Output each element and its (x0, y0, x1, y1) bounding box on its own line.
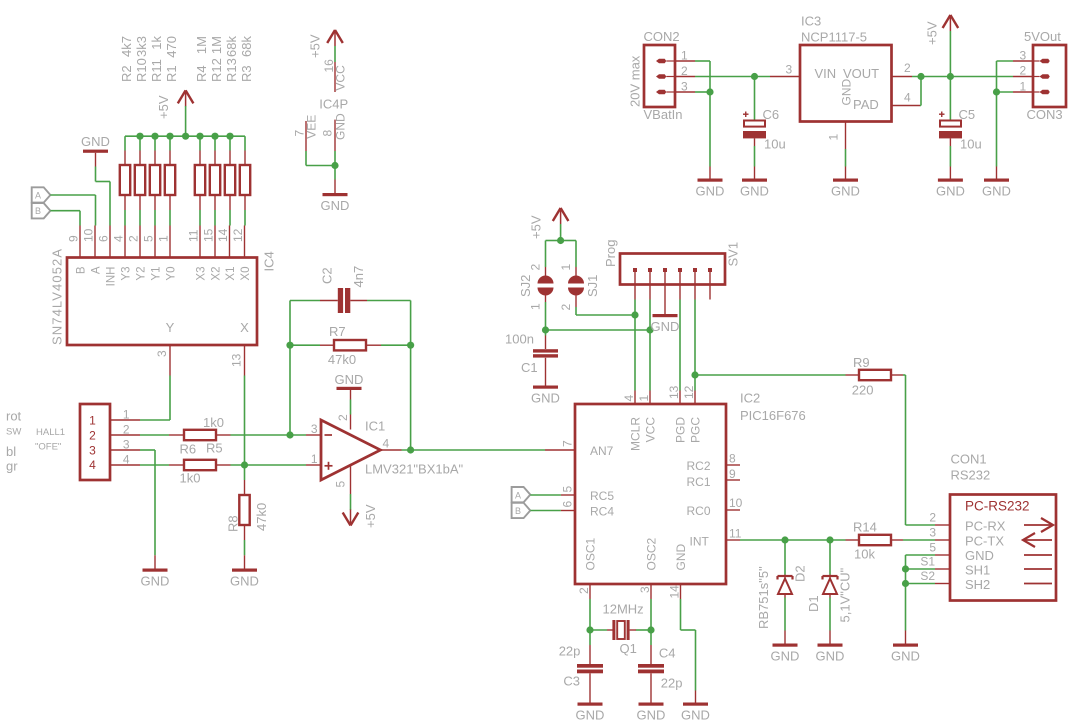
ground GND (C6) (740, 167, 769, 199)
diode D2 RB751s"5" (756, 540, 808, 629)
wire CON2 pin1/pin3 to GND (695, 61, 710, 167)
pin 15 X2 of IC4 (202, 226, 223, 281)
svg-text:VIN: VIN (815, 66, 837, 81)
svg-text:2: 2 (123, 422, 130, 436)
svg-text:2: 2 (559, 304, 573, 311)
svg-text:R14: R14 (853, 520, 877, 535)
svg-text:X1: X1 (225, 267, 237, 281)
capacitor C2 4n7 (320, 266, 368, 313)
label 100n (505, 332, 534, 347)
pin 14 X1 of IC4 (216, 226, 237, 281)
svg-text:5VOut: 5VOut (1024, 29, 1061, 44)
junction VOUT/PAD (917, 73, 924, 80)
pin S2 SH2 of CON1 (920, 569, 990, 592)
pin 1 of CON2 (675, 49, 695, 63)
svg-text:68k: 68k (239, 36, 254, 57)
ground GND (C4) (637, 703, 666, 723)
node A (near IC2) (512, 487, 531, 502)
svg-text:GND: GND (840, 79, 854, 106)
pin 3 of HALL1 (110, 437, 140, 451)
svg-text:X3: X3 (196, 267, 208, 281)
svg-text:IC2: IC2 (740, 391, 760, 406)
svg-text:GND: GND (576, 708, 605, 723)
svg-text:SJ2: SJ2 (518, 275, 533, 297)
svg-text:B: B (515, 506, 521, 516)
wire SV1 pin5 to IC2 PGC and R9 (695, 300, 846, 391)
ground GND (CON1) (891, 631, 920, 664)
svg-text:3: 3 (89, 443, 96, 457)
wire R9 to CON1 PC-RX (903, 375, 935, 525)
junction dots on +5V bus (136, 133, 233, 140)
solder jumper SJ2 (518, 264, 554, 311)
solder jumper SJ1 (559, 264, 600, 311)
svg-text:RC4: RC4 (590, 505, 614, 519)
wire HALL1 pin2 to R5 (140, 434, 169, 436)
svg-text:PC-TX: PC-TX (965, 534, 1004, 549)
svg-text:2: 2 (577, 587, 591, 594)
svg-text:INT: INT (690, 535, 710, 549)
svg-text:GND: GND (637, 708, 666, 723)
capacitor C3 22p (559, 630, 603, 703)
junction output feedback (407, 446, 414, 453)
pin 1 of HALL1 (110, 407, 140, 421)
op IC3 NCP1117-5 box (800, 45, 892, 122)
svg-text:X: X (240, 320, 249, 335)
svg-text:470: 470 (164, 36, 179, 58)
node A (top-left arrow) (32, 187, 51, 202)
svg-text:1M: 1M (209, 36, 224, 54)
svg-text:RC2: RC2 (686, 459, 710, 473)
svg-text:Y3: Y3 (121, 267, 133, 281)
svg-text:C5: C5 (959, 107, 976, 122)
pin 1 of IC3 (bottom) (827, 122, 846, 150)
svg-text:1: 1 (123, 407, 130, 421)
svg-text:4: 4 (89, 458, 96, 472)
svg-text:22p: 22p (559, 644, 581, 659)
pin 3 of CON3 (1013, 49, 1033, 63)
svg-text:2: 2 (904, 61, 911, 75)
svg-text:R7: R7 (329, 324, 346, 339)
pin 1 of SV1 (633, 268, 637, 300)
junction C6 node (751, 73, 758, 80)
svg-text:VCC: VCC (334, 65, 348, 91)
svg-text:B: B (35, 206, 41, 216)
pin 8 GND of IC4P (321, 113, 348, 151)
ground GND (IC1 pin 2) (335, 372, 364, 399)
label NCP1117-5 (801, 30, 867, 45)
svg-text:GND: GND (335, 372, 364, 387)
svg-text:15: 15 (202, 228, 216, 242)
pin 5 Y1 of IC4 (142, 226, 163, 281)
wire crystal left (590, 629, 607, 631)
svg-text:PC-RS232: PC-RS232 (965, 499, 1030, 514)
svg-text:5,1V"CU": 5,1V"CU" (838, 567, 853, 622)
label R6 (180, 442, 197, 457)
label LMV321"BX1bA" (365, 462, 464, 477)
svg-text:GND: GND (81, 134, 110, 149)
pin 10 A of IC4 (82, 226, 103, 275)
resistor R6 1k0 (169, 460, 231, 486)
junction SH2 (902, 580, 909, 587)
svg-text:+5V: +5V (925, 21, 940, 45)
wire GND to IC1 pin2 (350, 400, 352, 415)
connector HALL1 box (80, 404, 110, 480)
arrow PC-RX (right) (1024, 518, 1053, 532)
label IC1 (365, 419, 385, 434)
svg-text:X0: X0 (240, 267, 252, 281)
label IC3 (801, 14, 821, 29)
svg-text:7: 7 (561, 440, 575, 447)
svg-text:IC1: IC1 (365, 419, 385, 434)
pin 9 RC1 of IC2 (686, 467, 740, 489)
svg-text:Prog: Prog (603, 240, 618, 267)
junction feedback to pin3 (286, 431, 293, 438)
pin 3 Y of IC4 (bottom) (155, 320, 175, 376)
svg-text:VCC: VCC (644, 417, 658, 443)
pin 8 RC2 of IC2 (686, 452, 740, 474)
wire feedback left vertical (290, 301, 320, 436)
resistor R5 1k0 (169, 415, 231, 456)
label PC-RS232 (965, 499, 1030, 514)
svg-text:MCLR: MCLR (629, 417, 643, 451)
junction VCC node (646, 326, 653, 333)
wire +5V to CON3 pin2 (950, 76, 1013, 78)
label CON2 (644, 29, 680, 44)
svg-text:rot: rot (6, 409, 22, 424)
pin S1 SH1 of CON1 (920, 555, 990, 578)
svg-text:B: B (76, 266, 88, 274)
svg-text:VEE: VEE (305, 115, 319, 139)
svg-text:GND: GND (696, 184, 725, 199)
junction R7 left (286, 342, 293, 349)
svg-text:SV1: SV1 (726, 242, 741, 267)
pin 6 INH of IC4 (97, 226, 118, 287)
svg-text:12: 12 (682, 385, 696, 399)
svg-text:6: 6 (561, 501, 575, 508)
op IC4 SN74LV4052A multiplexer box (67, 258, 257, 346)
label SW (6, 426, 21, 437)
svg-text:68k: 68k (224, 36, 239, 57)
svg-text:2: 2 (529, 264, 543, 271)
wire R5 to IC1 pin3 (231, 434, 307, 436)
pin 13 PGD of IC2 (667, 385, 688, 443)
svg-text:+5V: +5V (156, 95, 171, 119)
svg-text:2: 2 (127, 235, 141, 242)
pin 5 GND of CON1 (929, 541, 994, 564)
wire IC1 output to IC2 AN7 (402, 449, 546, 451)
svg-text:IC3: IC3 (801, 14, 821, 29)
svg-text:11: 11 (729, 527, 742, 541)
pin 7 VEE of IC4P (293, 115, 319, 151)
node B (top-left arrow) (32, 203, 51, 218)
svg-text:CON1: CON1 (951, 452, 987, 467)
svg-text:+5V: +5V (529, 215, 544, 239)
svg-text:R10: R10 (134, 58, 149, 82)
svg-text:1: 1 (157, 235, 171, 242)
wire D1 to GND (829, 598, 831, 631)
svg-text:bl: bl (6, 444, 16, 459)
svg-text:SH1: SH1 (965, 563, 990, 578)
wire VEE to GND (IC4P) (306, 151, 335, 180)
wire CON3 pin3/pin1 to GND (997, 61, 1014, 167)
pin 4 of IC1 (output) (381, 437, 402, 451)
svg-text:11: 11 (187, 229, 201, 242)
wire SV1 pin4 to IC2 PGD (679, 300, 681, 391)
svg-text:Q1: Q1 (620, 641, 637, 656)
svg-text:1: 1 (1020, 80, 1027, 94)
svg-text:1k0: 1k0 (180, 471, 201, 486)
label Prog (603, 240, 618, 267)
svg-text:C4: C4 (659, 646, 676, 661)
label gr (6, 458, 18, 473)
resistor R2 (4k7) (119, 36, 134, 226)
wire CON1 GND/SH1/SH2 to ground (906, 555, 936, 631)
line GND stub (CON1) (1024, 554, 1052, 556)
wire OSC1 down (589, 599, 591, 630)
svg-text:C6: C6 (763, 107, 780, 122)
ground GND (IC2 pin14) (681, 691, 710, 723)
ground GND (IC4P) (321, 180, 350, 214)
svg-text:14: 14 (216, 228, 230, 242)
svg-text:5: 5 (142, 235, 156, 242)
svg-text:OSC2: OSC2 (645, 537, 659, 570)
junction SJ1/SV1 node (631, 311, 638, 318)
svg-text:8: 8 (321, 130, 335, 137)
svg-text:C1: C1 (521, 360, 538, 375)
wire B to RC4 (530, 510, 561, 512)
svg-text:IC4P: IC4P (319, 97, 348, 112)
pin 12 PGC of IC2 (682, 385, 703, 443)
label 5VOut (1024, 29, 1061, 44)
wire INT to R14 (740, 539, 846, 541)
svg-text:GND: GND (674, 544, 688, 571)
svg-text:14: 14 (668, 585, 682, 599)
svg-text:RS232: RS232 (951, 468, 991, 483)
wire GND to IC4 pin 6 INH (96, 167, 111, 226)
connector SV1 Prog box (620, 254, 725, 285)
pin 3 of CON2 (675, 80, 695, 94)
connector CON1 RS232 box (950, 495, 1056, 601)
svg-text:Y: Y (166, 320, 175, 335)
svg-text:GND: GND (816, 649, 845, 664)
svg-text:3: 3 (155, 350, 169, 357)
svg-text:VBatIn: VBatIn (644, 107, 683, 122)
svg-text:R13: R13 (224, 58, 239, 82)
junction SH1 (902, 565, 909, 572)
op IC2 PIC16F676 box (575, 404, 726, 584)
pin 16 VCC of IC4P (322, 59, 348, 92)
pin 2 Y2 of IC4 (127, 226, 148, 281)
pin 4 of SV1 (678, 268, 682, 300)
svg-text:20V max: 20V max (628, 55, 643, 107)
power +5V symbol (top right) (925, 15, 959, 77)
crystal Q1 12MHz (603, 602, 644, 657)
resistor R4 (1M) (194, 36, 209, 226)
wire HALL1 pin4 to R6 (140, 464, 169, 466)
svg-text:IC4: IC4 (262, 251, 277, 271)
ground GND (SV1 pin3) (651, 300, 680, 335)
wire R6 to IC1 pin1 (231, 464, 307, 466)
svg-text:GND: GND (321, 198, 350, 213)
junction D2 node (781, 536, 788, 543)
svg-text:4: 4 (112, 235, 126, 242)
svg-text:4: 4 (123, 452, 130, 466)
svg-text:9: 9 (729, 467, 736, 481)
svg-text:2: 2 (1020, 64, 1027, 78)
svg-text:1M: 1M (194, 36, 209, 54)
junction OSC2 crystal node (647, 626, 654, 633)
label PIC16F676 (740, 408, 806, 423)
wire SJ2 to C1 node (545, 302, 547, 330)
pin 14 GND of IC2 (668, 544, 689, 600)
svg-text:PIC16F676: PIC16F676 (740, 408, 806, 423)
svg-text:Y1: Y1 (151, 267, 163, 281)
svg-text:SN74LV4052A: SN74LV4052A (50, 248, 65, 345)
resistor R7 47k0 (320, 324, 381, 367)
svg-text:8: 8 (729, 452, 736, 466)
svg-text:2: 2 (89, 428, 96, 442)
junction R7 right (407, 342, 414, 349)
resistor R11 (1k) (149, 36, 164, 226)
label "OFE" (35, 442, 61, 453)
pin 2 VOUT of IC3 (892, 61, 913, 77)
svg-text:S1: S1 (920, 555, 935, 569)
pin 10 RC0 of IC2 (686, 496, 742, 518)
wire IC1 pin5 to +5V (350, 494, 352, 510)
wire IC2 GND to ground (681, 599, 696, 691)
svg-text:1: 1 (89, 414, 96, 428)
svg-text:1k0: 1k0 (203, 415, 224, 430)
pin 4 MCLR of IC2 (622, 391, 643, 452)
ground GND (IC4 INH) (81, 134, 110, 166)
wire IC3 pin1 to GND (845, 149, 847, 167)
svg-text:Y0: Y0 (166, 267, 178, 281)
resistor R12 (1M) (209, 36, 224, 226)
wire crystal right (636, 629, 651, 631)
svg-text:R8: R8 (226, 515, 241, 532)
label rot (6, 409, 22, 424)
svg-text:CON3: CON3 (1027, 107, 1063, 122)
label IC2 (740, 391, 760, 406)
svg-text:C2: C2 (320, 267, 335, 284)
resistor R8 47k0 (226, 480, 270, 540)
ground GND (CON2) (696, 167, 725, 199)
svg-text:47k0: 47k0 (254, 503, 269, 531)
svg-text:4: 4 (904, 91, 911, 105)
svg-text:OSC1: OSC1 (584, 537, 598, 570)
ground GND (C1) (531, 386, 560, 406)
svg-text:GND: GND (141, 574, 170, 589)
svg-text:NCP1117-5: NCP1117-5 (801, 30, 867, 45)
svg-text:10: 10 (729, 496, 743, 510)
svg-text:GND: GND (740, 184, 769, 199)
pin 11 X3 of IC4 (187, 226, 208, 281)
svg-text:LMV321"BX1bA": LMV321"BX1bA" (365, 462, 464, 477)
pin 4 Y3 of IC4 (112, 226, 133, 281)
svg-text:13: 13 (667, 385, 681, 399)
label HALL1 (36, 427, 65, 438)
connector CON3 box (1033, 45, 1066, 107)
capacitor C1 100n (521, 330, 558, 386)
label SV1 (726, 242, 741, 267)
wire SV1 pin2 to IC2 VCC (649, 300, 651, 391)
pin 2 of CON3 (1013, 64, 1033, 78)
diode D1 5,1V"CU" (806, 540, 853, 623)
resistor R1 (470) (164, 36, 179, 226)
wire HALL1 pin1 to IC4 Y (140, 376, 170, 421)
resistor R13 (68k) (224, 36, 239, 226)
svg-text:3: 3 (311, 422, 318, 436)
wire CON2 pin2 to IC3 VIN (695, 76, 770, 78)
svg-text:SH2: SH2 (965, 577, 990, 592)
junction D1 node (826, 536, 833, 543)
wire +5V to SJ2 (546, 241, 561, 268)
pin 2 OSC1 of IC2 (577, 537, 598, 599)
svg-text:5: 5 (334, 481, 348, 488)
svg-text:1: 1 (311, 452, 318, 466)
wire OSC2 down (650, 599, 652, 630)
svg-text:GND: GND (230, 574, 259, 589)
pin 1 of CON3 (1013, 80, 1033, 94)
svg-text:2: 2 (929, 511, 936, 525)
svg-text:CON2: CON2 (644, 29, 680, 44)
label IC4 (262, 251, 277, 271)
wire IC4 X to R8 node (244, 376, 246, 481)
svg-text:220: 220 (852, 383, 874, 398)
ground GND (D2) (771, 631, 800, 664)
svg-text:A: A (35, 190, 41, 200)
wire B to IC4 pin 9 (50, 211, 80, 226)
pin 2 of SV1 (648, 268, 652, 300)
svg-text:4: 4 (383, 437, 390, 451)
svg-text:C3: C3 (563, 674, 580, 689)
pin 5 RC5 of IC2 (561, 486, 615, 504)
svg-text:4k7: 4k7 (119, 36, 134, 57)
junction R8 node (241, 461, 248, 468)
junction CON3 gnd node (993, 88, 1000, 95)
svg-text:R9: R9 (853, 355, 870, 370)
line SH1 stub (CON1) (1024, 568, 1052, 570)
line SH2 stub (CON1) (1024, 583, 1052, 585)
svg-text:S2: S2 (920, 569, 935, 583)
svg-text:SW: SW (6, 426, 21, 437)
pin 5 of SV1 (693, 268, 697, 300)
svg-text:PGD: PGD (674, 417, 688, 443)
svg-text:D2: D2 (793, 565, 808, 582)
svg-text:12MHz: 12MHz (603, 602, 644, 617)
svg-text:4: 4 (622, 395, 636, 402)
svg-text:2: 2 (336, 414, 350, 421)
wire C1 node to SV1 pin2 node (546, 329, 651, 331)
svg-text:3: 3 (1020, 49, 1027, 63)
wire +5V to SJ1 (561, 241, 576, 268)
svg-text:3k3: 3k3 (134, 36, 149, 57)
junction C1 node (542, 326, 549, 333)
pin 2 PC-RX of CON1 (929, 511, 1005, 534)
wire D2 to GND (784, 598, 786, 631)
svg-text:1: 1 (529, 303, 543, 310)
svg-text:GND: GND (936, 184, 965, 199)
svg-text:RB751s"5": RB751s"5" (756, 566, 771, 629)
label bl (6, 444, 16, 459)
ground GND (C5) (936, 167, 965, 199)
label RS232 (951, 468, 991, 483)
ground GND (R8) (230, 555, 259, 588)
node +5V bus wire (125, 135, 245, 137)
svg-text:GND: GND (965, 548, 994, 563)
pin 5 of IC1 (334, 466, 351, 494)
pin 1 VCC of IC2 (637, 391, 658, 443)
